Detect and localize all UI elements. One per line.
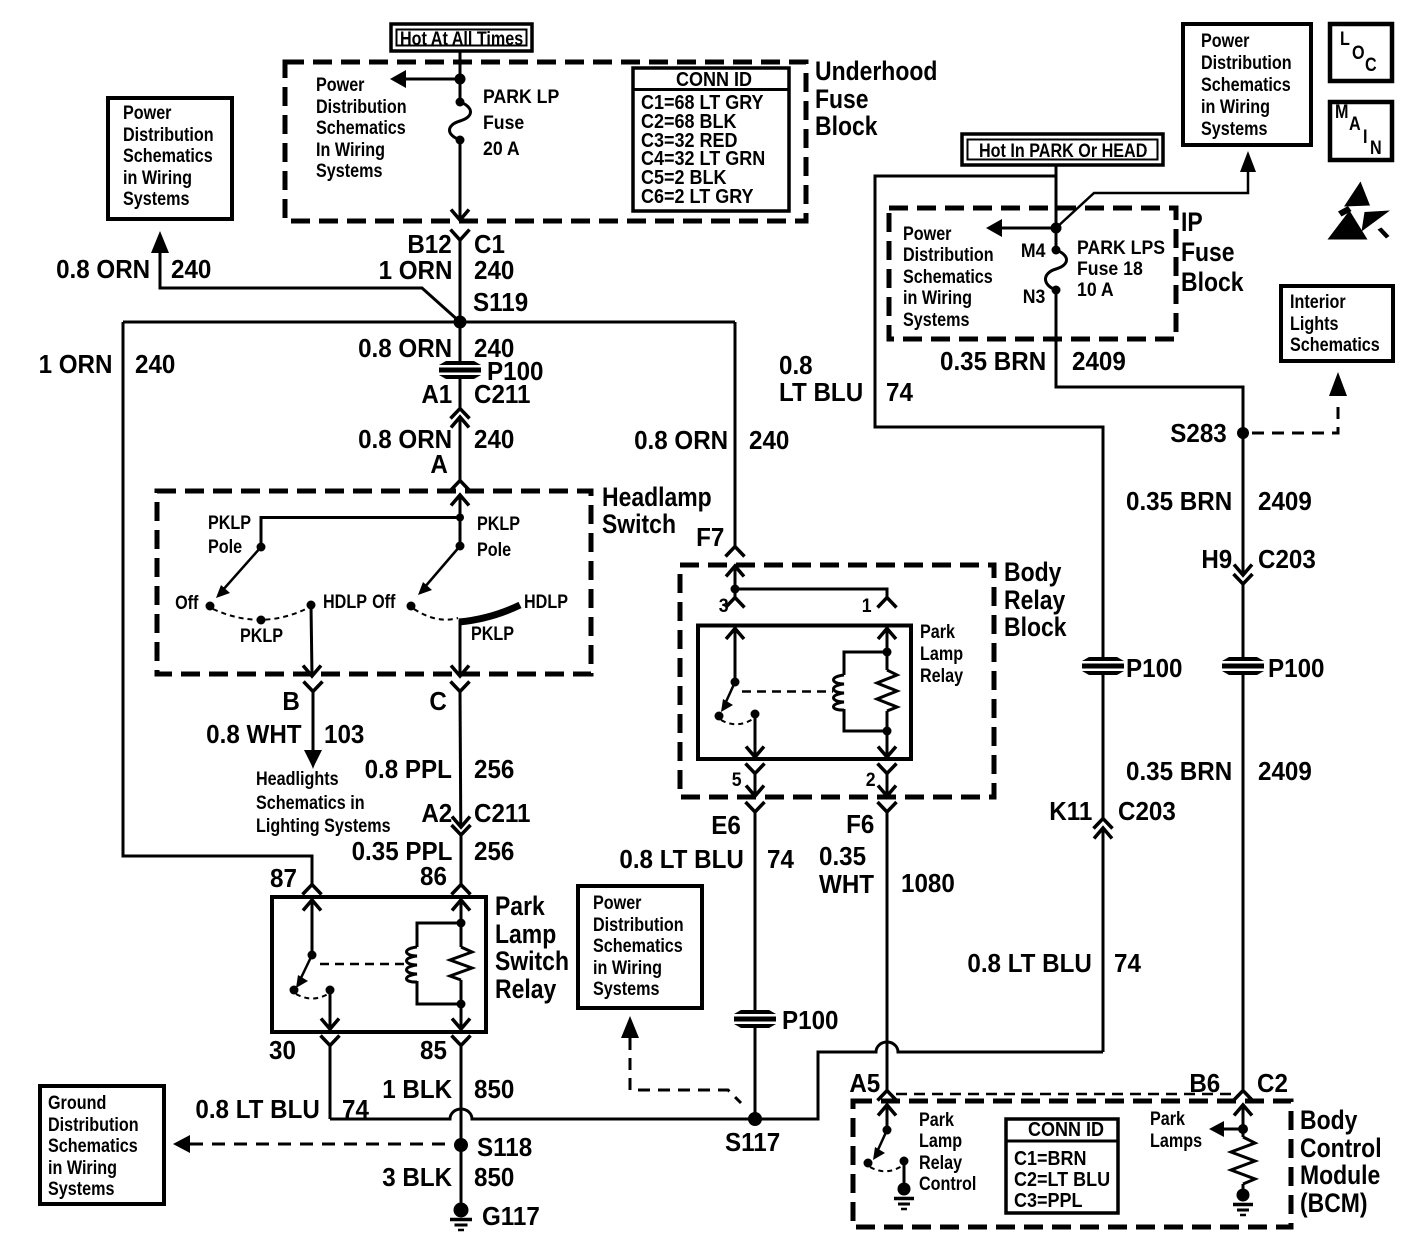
note power distribution (top right box) bbox=[1201, 31, 1292, 142]
left Off contact bbox=[206, 602, 215, 611]
heading Park Lamp Switch Relay bbox=[495, 893, 569, 1003]
wire Hot In PARK down to splice bbox=[1055, 165, 1058, 250]
arrow to power distribution (IP block) bbox=[986, 219, 1056, 237]
dashed route S283 to Interior Lights box bbox=[1252, 372, 1347, 433]
label fuse PARK LPS bbox=[1077, 238, 1165, 301]
relay switch contact (open) bbox=[290, 986, 299, 995]
wire label 0.8 WHT 103 bbox=[207, 721, 302, 747]
pin F7 bbox=[696, 524, 724, 550]
relay coil bottom junction bbox=[457, 1000, 466, 1009]
wire 0.8 LT BLU 74 from pin 30 to S117 and K11 bbox=[330, 1042, 1103, 1119]
relay coil branch bbox=[407, 923, 462, 1004]
park lamp relay switch feed arrow (pin 3) bbox=[726, 629, 744, 683]
arrow to power distribution (left) bbox=[390, 70, 460, 88]
pin 87 bbox=[270, 865, 297, 891]
BCM internal dashed top line bbox=[896, 1093, 1234, 1096]
Hot In PARK Or HEAD box bbox=[962, 134, 1163, 165]
park lamp relay contact (open) bbox=[715, 712, 724, 721]
diagonal wire to power distribution box top right bbox=[1056, 151, 1256, 228]
pin 86 bbox=[420, 863, 447, 889]
splice S119 bbox=[454, 316, 467, 329]
park lamp relay control dashed line bbox=[742, 690, 833, 693]
fuse PARK LP 20 A bbox=[450, 98, 471, 145]
splice dot in fuse block bbox=[455, 74, 466, 85]
relay switch feed arrow (pin 87) bbox=[303, 900, 321, 955]
wire label 0.8 ORN 240 (above A) bbox=[358, 426, 452, 452]
connector chevron pin 87 bbox=[303, 885, 322, 895]
label Off (right) bbox=[372, 593, 395, 612]
pin B6 / C2 bbox=[1189, 1070, 1220, 1096]
ground G117 bbox=[450, 1203, 472, 1231]
splice S283 bbox=[1237, 427, 1249, 439]
connector A5 chevron bbox=[878, 1091, 897, 1101]
pin B bbox=[283, 688, 300, 714]
pin A2 / C211 bbox=[421, 800, 452, 826]
wire junction to pin 1 bbox=[735, 589, 887, 597]
pin 2 bbox=[866, 771, 876, 790]
ground distribution schematics box bbox=[40, 1086, 164, 1204]
junction dot F7 bbox=[731, 585, 740, 594]
label fuse PARK LP bbox=[483, 85, 559, 163]
power distribution schematics box (bottom middle) bbox=[578, 886, 702, 1008]
ground label G117 bbox=[482, 1203, 540, 1229]
relay switch blade bbox=[296, 955, 312, 988]
wire label 1 BLK 850 bbox=[382, 1076, 452, 1102]
wire P100 to S117 bbox=[754, 1028, 757, 1119]
heading Underhood Fuse Block bbox=[815, 58, 937, 141]
wire label 0.35 WHT 1080 bbox=[819, 842, 874, 898]
BCM driver switch blade bbox=[873, 1130, 887, 1160]
label Park Lamp Relay Control bbox=[919, 1110, 976, 1196]
splice S118 bbox=[454, 1138, 468, 1152]
left wire 1 ORN 240 down and to relay pin 87 bbox=[123, 322, 312, 884]
pin 3 bbox=[719, 597, 729, 616]
wire label 0.8 LT BLU 74 (IP left) bbox=[779, 352, 863, 406]
MAIN box bbox=[1330, 102, 1392, 160]
note power distribution (IP block) bbox=[903, 224, 994, 332]
pin A5 bbox=[849, 1070, 880, 1096]
note power distribution (underhood block) bbox=[316, 75, 407, 183]
park lamp relay contact (pin 5) bbox=[751, 710, 760, 719]
wire label 0.8 LT BLU 74 (bottom) bbox=[196, 1096, 320, 1122]
grommet label P100 (E6 wire) bbox=[782, 1007, 838, 1033]
right PKLP pole dot bbox=[456, 542, 465, 551]
wire fuse output with arrowhead bbox=[451, 140, 469, 220]
left switch travel arc bbox=[213, 608, 308, 620]
right switch wiper in PKLP position (thick) bbox=[459, 605, 520, 622]
BCM driver ground bbox=[894, 1161, 914, 1209]
splice label S117 bbox=[725, 1129, 780, 1155]
pin C bbox=[430, 688, 447, 714]
heading IP Fuse Block bbox=[1181, 207, 1244, 297]
BCM driver travel arc bbox=[870, 1166, 902, 1171]
wire P100 down to B6 bbox=[1242, 675, 1245, 1090]
pin B12 / C1 bbox=[408, 231, 452, 257]
Hot At All Times box bbox=[391, 24, 532, 51]
splice label S119 bbox=[473, 289, 528, 315]
wire label 0.35 PPL 256 bbox=[351, 838, 452, 864]
pin 85 bbox=[420, 1037, 447, 1063]
heading Headlamp Switch bbox=[602, 484, 712, 539]
grommet label P100 (K11 wire) bbox=[1126, 655, 1182, 681]
pin N3 bbox=[1022, 288, 1045, 307]
wire S119 down to P100 bbox=[459, 322, 462, 361]
pin K11 / C203 bbox=[1049, 798, 1092, 824]
grommet P100 (E6 wire) bbox=[734, 1010, 776, 1028]
left PKLP pole dot bbox=[257, 543, 266, 552]
Body Control Module dashed box bbox=[853, 1101, 1291, 1227]
splice label S118 bbox=[477, 1134, 532, 1160]
wire label 0.8 ORN 240 (below S119) bbox=[358, 335, 452, 361]
power distribution schematics box (top left) bbox=[108, 98, 232, 219]
park lamp relay coil bottom junction bbox=[883, 727, 892, 736]
grommet label P100 bbox=[487, 358, 543, 384]
grommet label P100 (right wire) bbox=[1268, 655, 1324, 681]
wire label 0.8 ORN 240 (to power dist) bbox=[56, 256, 150, 282]
wire label 0.35 BRN 2409 (upper right) bbox=[1126, 488, 1232, 514]
Body Relay Block dashed box bbox=[680, 565, 994, 797]
Interior Lights Schematics box bbox=[1281, 286, 1393, 361]
connector C below headlamp switch bbox=[451, 682, 470, 828]
label Hot At All Times bbox=[400, 30, 523, 49]
LOC box bbox=[1330, 24, 1392, 81]
connector H9/C203 bbox=[1234, 574, 1253, 657]
splice S117 bbox=[748, 1112, 762, 1126]
wire S119 to F7 bbox=[734, 322, 737, 546]
feed branch junction bbox=[456, 514, 464, 522]
right switch blade bbox=[418, 546, 460, 595]
CONN ID table (BCM) bbox=[1006, 1119, 1118, 1213]
label MAIN bbox=[1335, 103, 1348, 122]
BCM resistor ground bbox=[1233, 1184, 1253, 1215]
wire label 1 ORN 240 (fuse feed) bbox=[378, 257, 452, 283]
dashed route S117 to power distribution box bbox=[621, 1016, 741, 1103]
splice dot in IP fuse block bbox=[1051, 223, 1062, 234]
fuse PARK LPS 18 bbox=[1046, 246, 1067, 295]
connector A2/C211 bbox=[452, 817, 471, 885]
label Park Lamps bbox=[1150, 1109, 1202, 1153]
relay contact travel arc bbox=[296, 994, 328, 999]
wire label 0.8 LT BLU 74 (E6) bbox=[620, 846, 744, 872]
relay coil feed arrow (pin 86) bbox=[452, 900, 470, 947]
left HDLP contact bbox=[307, 601, 316, 610]
BCM driver contact (grounded) bbox=[900, 1157, 909, 1166]
connector F7 chevron bbox=[726, 547, 745, 557]
splice label S283 bbox=[1171, 420, 1227, 446]
note Interior Lights Schematics bbox=[1290, 292, 1380, 357]
heading Body Relay Block bbox=[1004, 559, 1067, 642]
relay box: Park Lamp Switch Relay bbox=[272, 897, 486, 1032]
main horizontal wire at S119 bbox=[123, 321, 735, 324]
grommet P100 (K11 wire) bbox=[1082, 657, 1124, 675]
label HDLP (right) bbox=[524, 593, 568, 612]
connector A1/C211 bbox=[451, 409, 470, 481]
label Off (left) bbox=[175, 594, 198, 613]
connector chevron pin 30 bbox=[321, 1036, 340, 1120]
wire P100 to connector C211 bbox=[459, 379, 462, 408]
headlamp switch feed arrow bbox=[451, 495, 469, 546]
park lamp relay switch blade bbox=[721, 682, 735, 712]
wire fuse N3 down right to S283 bbox=[1056, 290, 1243, 433]
connector A into headlamp switch bbox=[451, 481, 470, 491]
wire S118 to ground G117 bbox=[460, 1145, 463, 1208]
label HDLP (left) bbox=[323, 593, 367, 612]
pin 1 bbox=[862, 597, 872, 616]
right switch output wire C bbox=[451, 620, 469, 676]
relay box: Park Lamp Relay bbox=[698, 626, 911, 760]
CONN ID rows (BCM) bbox=[1014, 1149, 1110, 1212]
BCM driver contact (open) bbox=[864, 1159, 873, 1168]
connector E6 bbox=[746, 802, 765, 1010]
wire label 0.35 BRN 2409 (IP) bbox=[940, 348, 1046, 374]
relay resistor bbox=[450, 947, 472, 980]
BCM driver pivot bbox=[883, 1126, 892, 1135]
park lamp relay travel arc bbox=[721, 719, 753, 724]
relay pin 30 wire with arrow bbox=[321, 990, 339, 1029]
left switch blade bbox=[216, 547, 261, 598]
label PKLP (left contact) bbox=[240, 627, 283, 646]
connector chevron pin 5 bbox=[746, 764, 765, 797]
power distribution schematics box (top right) bbox=[1183, 24, 1311, 145]
label PKLP Pole (left) bbox=[208, 512, 251, 559]
connector B12/C1 bbox=[451, 230, 470, 323]
connector K11/C203 bbox=[1094, 819, 1113, 1053]
CONN ID header (BCM) bbox=[1028, 1120, 1104, 1140]
note power distribution (bottom box) bbox=[593, 893, 684, 1001]
BCM driver feed arrow (A5) bbox=[878, 1105, 896, 1130]
heading Body Control Module (BCM) bbox=[1300, 1107, 1382, 1217]
relay control dashed line bbox=[320, 963, 404, 966]
relay pin 85 wire with arrow bbox=[452, 980, 470, 1029]
CONN ID rows (underhood) bbox=[641, 94, 765, 207]
CONN ID header (underhood) bbox=[676, 70, 752, 90]
wire from Hot At All Times to fuse bbox=[459, 51, 462, 102]
grommet P100 (main feed) bbox=[439, 361, 481, 379]
Headlamp Switch dashed box bbox=[157, 491, 591, 674]
solid box wire 0.8 LT BLU 74 around IP block bbox=[875, 176, 1103, 657]
pin M4 bbox=[1020, 242, 1045, 261]
relay switch contact (pin 30) bbox=[326, 986, 335, 995]
left switch output wire B bbox=[303, 605, 321, 676]
right switch travel arc bbox=[414, 609, 458, 620]
park lamp relay coil feed arrow (pin 1) bbox=[878, 629, 896, 671]
wire P100 down to K11 bbox=[1102, 675, 1105, 818]
pin F6 bbox=[846, 811, 874, 837]
park lamp relay resistor bbox=[877, 670, 897, 711]
connector B6 chevron bbox=[1234, 1091, 1253, 1101]
wire label 0.35 BRN 2409 (lower right) bbox=[1126, 758, 1232, 784]
note power distribution (top left box) bbox=[123, 103, 214, 211]
pin 30 bbox=[269, 1037, 296, 1063]
connector chevron pin 86 bbox=[452, 885, 471, 895]
right Off contact bbox=[407, 602, 416, 611]
pin A1 / C211 bbox=[421, 381, 452, 407]
branch wire 0.8 ORN 240 with arrow to power distribution bbox=[151, 231, 460, 322]
BCM park lamps junction bbox=[1238, 1124, 1248, 1134]
connector chevron pin 3 bbox=[726, 598, 745, 608]
relay coil top junction bbox=[457, 919, 466, 928]
pin A bbox=[431, 451, 448, 477]
grommet P100 (right wire) bbox=[1222, 657, 1264, 675]
arrow to park lamps bbox=[1209, 1121, 1243, 1137]
park lamp relay coil branch bbox=[834, 652, 888, 731]
dashed route S118 to ground distribution box bbox=[173, 1135, 452, 1153]
label Hot In PARK Or HEAD bbox=[979, 142, 1147, 161]
label PKLP (right contact) bbox=[471, 625, 514, 644]
relay switch pivot bbox=[308, 951, 317, 960]
park lamp relay switch pivot bbox=[731, 678, 740, 687]
connector F6 bbox=[878, 802, 897, 1090]
BCM park lamps resistor bbox=[1231, 1137, 1255, 1184]
BCM park lamps feed arrow (B6) bbox=[1234, 1105, 1252, 1137]
park lamp relay pin 2 wire with arrow bbox=[878, 711, 896, 757]
connector chevron pin 1 bbox=[878, 598, 897, 608]
label Park Lamp Relay bbox=[920, 622, 963, 688]
park lamp relay coil top junction bbox=[883, 648, 892, 657]
pin E6 bbox=[711, 812, 741, 838]
wire label 0.8 LT BLU 74 (K11 wire) bbox=[968, 950, 1092, 976]
connector B below headlamp switch bbox=[304, 682, 323, 770]
wire label 3 BLK 850 bbox=[382, 1164, 452, 1190]
note headlights schematics bbox=[256, 768, 391, 840]
connector chevron pin 2 bbox=[878, 764, 897, 797]
CONN ID table (underhood) bbox=[633, 68, 789, 211]
F7 feed arrow into body relay block bbox=[726, 566, 744, 597]
wire label 1 ORN 240 (left wire) bbox=[38, 351, 112, 377]
branch wire to left pole bbox=[261, 518, 460, 548]
label LOC bbox=[1340, 30, 1350, 49]
wire label 0.8 PPL 256 bbox=[365, 756, 452, 782]
pin 5 bbox=[732, 771, 742, 790]
ESD sensitive device symbol bbox=[1328, 182, 1391, 240]
park lamp relay pin 5 wire with arrow bbox=[746, 714, 764, 757]
wire label 0.8 ORN 240 (F7 branch) bbox=[634, 427, 728, 453]
connector chevron pin 85 bbox=[452, 1036, 471, 1146]
note ground distribution schematics bbox=[48, 1093, 139, 1201]
IP Fuse Block dashed box bbox=[889, 208, 1176, 339]
wire S283 down 0.35 BRN 2409 bbox=[1234, 433, 1252, 575]
left PKLP contact bbox=[257, 616, 266, 625]
pin H9 / C203 bbox=[1201, 546, 1232, 572]
Underhood Fuse Block dashed box bbox=[285, 62, 806, 221]
label PKLP Pole (right) bbox=[477, 512, 520, 564]
